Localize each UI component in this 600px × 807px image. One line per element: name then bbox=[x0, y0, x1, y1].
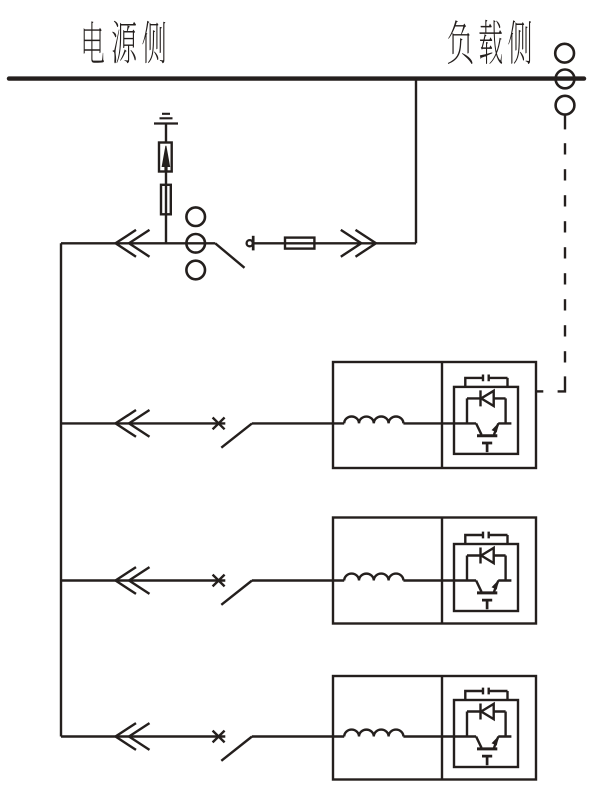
CT circle top bbox=[186, 207, 205, 226]
dashed control link bbox=[558, 143, 565, 391]
wire inductor to IGBT cell module 3 bbox=[403, 735, 467, 737]
wire ground to arrester bbox=[165, 124, 167, 143]
dc-link capacitor C3 bbox=[465, 688, 507, 700]
fuse FU2 bbox=[285, 238, 314, 249]
wire diode loop right module 1 bbox=[498, 398, 511, 423]
wire inductor to IGBT cell module 1 bbox=[403, 422, 467, 424]
freewheel diode D2 bbox=[467, 548, 506, 564]
IGBT cell box module 1 bbox=[454, 387, 518, 454]
inductor L1 bbox=[344, 417, 403, 424]
IGBT Q1 bbox=[476, 423, 481, 434]
wire stub below CT bbox=[564, 115, 566, 130]
main bus bbox=[9, 76, 584, 80]
load-side CT circle 3 bbox=[556, 96, 575, 115]
wire branch 3 from left bus bbox=[61, 735, 225, 737]
wire branch 1 from left bus bbox=[61, 422, 225, 424]
wire diode loop left module 3 bbox=[467, 712, 476, 737]
load-side CT circle 1 bbox=[555, 44, 574, 63]
IGBT gate terminal module 3 bbox=[482, 756, 492, 765]
left riser bus bbox=[60, 243, 62, 736]
label 负载侧 (load side) bbox=[448, 20, 531, 64]
IGBT gate terminal module 2 bbox=[482, 600, 492, 609]
fuse-link x mark branch 3 bbox=[213, 731, 225, 743]
IGBT Q2 bbox=[476, 581, 481, 592]
module 3 compartment divider bbox=[441, 676, 443, 780]
module 1 enclosure bbox=[333, 362, 536, 468]
surge arrester FV bbox=[159, 143, 172, 172]
module 3 enclosure bbox=[333, 676, 536, 780]
switch blade branch 3 bbox=[221, 737, 252, 761]
ground (arrester earth) bbox=[154, 114, 178, 124]
wire diode loop left module 1 bbox=[467, 398, 476, 423]
drawout contact chevrons branch 1 bbox=[116, 410, 150, 437]
freewheel diode D1 bbox=[467, 390, 506, 406]
wire bus drop bbox=[415, 79, 417, 244]
load-side CT circle 2 bbox=[556, 70, 575, 89]
wire contact to fuse bbox=[253, 242, 416, 244]
CT circle bottom bbox=[186, 261, 205, 280]
IGBT Q3 bbox=[476, 737, 481, 748]
module 2 compartment divider bbox=[441, 518, 443, 624]
switch blade incoming bbox=[215, 243, 244, 267]
wire to module 3 bbox=[252, 735, 344, 737]
wire arrester to fuse bbox=[165, 172, 167, 244]
label 电源侧 (source side) bbox=[84, 21, 166, 64]
CT circle middle bbox=[186, 234, 205, 253]
drawout contact chevrons incoming bbox=[116, 230, 150, 257]
module 1 compartment divider bbox=[441, 362, 443, 468]
inductor L2 bbox=[344, 574, 403, 581]
wire stub module 1 to control link bbox=[536, 390, 543, 392]
wire incoming feeder bbox=[61, 242, 215, 244]
dc-link capacitor C2 bbox=[465, 532, 507, 544]
dc-link capacitor C1 bbox=[465, 375, 507, 387]
wire diode loop right module 2 bbox=[498, 556, 511, 581]
wire branch 2 from left bus bbox=[61, 579, 225, 581]
switch blade branch 2 bbox=[221, 581, 252, 605]
IGBT cell box module 2 bbox=[454, 544, 518, 611]
wire inductor to IGBT cell module 2 bbox=[403, 579, 467, 581]
drawout contact chevrons branch 3 bbox=[116, 723, 150, 750]
fuse-link x mark branch 2 bbox=[213, 575, 225, 587]
module 2 enclosure bbox=[333, 518, 536, 624]
wire to module 2 bbox=[252, 579, 344, 581]
inductor L3 bbox=[344, 730, 403, 737]
wire to module 1 bbox=[252, 422, 344, 424]
freewheel diode D3 bbox=[467, 704, 506, 720]
wire diode loop left module 2 bbox=[467, 556, 476, 581]
drawout contact chevrons transfer bbox=[341, 230, 376, 257]
wire diode loop right module 3 bbox=[498, 712, 511, 737]
switch blade branch 1 bbox=[221, 423, 252, 447]
socket contact bbox=[247, 236, 254, 251]
fuse-link x mark branch 1 bbox=[213, 418, 225, 430]
fuse FU1 bbox=[161, 185, 171, 215]
drawout contact chevrons branch 2 bbox=[116, 567, 150, 594]
IGBT gate terminal module 1 bbox=[482, 443, 492, 452]
IGBT cell box module 3 bbox=[454, 700, 518, 767]
